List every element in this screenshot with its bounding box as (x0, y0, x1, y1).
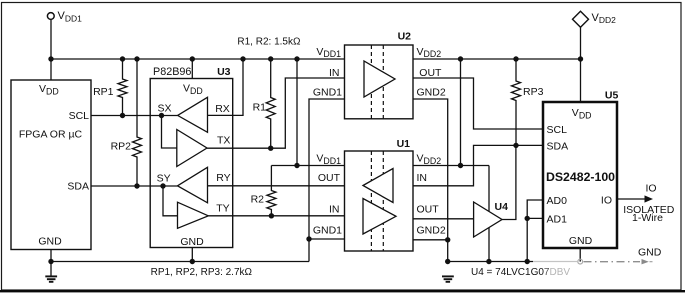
svg-text:P82B96: P82B96 (153, 66, 191, 78)
node AD1 junction (525, 216, 530, 221)
resistor RP2 (111, 59, 142, 186)
svg-text:IO: IO (601, 194, 612, 206)
wire U1 VDD2 to supply rail (413, 59, 489, 166)
wire VDD2 bus (right supply rail) (413, 58, 581, 60)
node VDD1/R2 tee junction (294, 163, 299, 168)
node left ground bus junctions (48, 259, 195, 264)
wire U4 output to isolated SDA (502, 145, 516, 219)
op-amp buffer U3 TY (points right) (178, 202, 209, 228)
svg-text:U5: U5 (605, 90, 619, 102)
svg-text:GND2: GND2 (417, 87, 446, 99)
svg-text:GND: GND (569, 235, 593, 247)
wire U1 OUT to U4 input (413, 218, 474, 220)
node R2 bottom junction on IN line (269, 213, 274, 218)
wire U3 VDD feed (191, 59, 193, 79)
svg-text:R1, R2: 1.5kΩ: R1, R2: 1.5kΩ (237, 36, 301, 47)
wire U4 supply/ground drop (488, 166, 490, 262)
isolation barrier dashes U1 (371, 151, 383, 251)
svg-text:RP3: RP3 (523, 86, 544, 98)
svg-text:RP2: RP2 (111, 140, 132, 152)
svg-text:U1: U1 (397, 138, 411, 150)
wire U2 OUT to U5 SCL (413, 78, 543, 129)
svg-text:TX: TX (217, 135, 230, 147)
svg-text:GND: GND (38, 235, 62, 247)
wire VDD1 to U1 (riser and feed) (271, 59, 344, 166)
wire isolated GND dash-dot arrow (584, 259, 653, 264)
svg-text:IN: IN (329, 67, 340, 79)
resistor R2 (251, 166, 276, 216)
op-amp buffer inside U1 top (points left) (363, 169, 393, 203)
wire U2 GND2 to isolated ground (413, 99, 448, 262)
svg-text:R2: R2 (251, 193, 265, 205)
node U5 GND junction (faded) (578, 259, 583, 264)
wire RX pull-up to VDD1 (208, 59, 244, 115)
svg-text:OUT: OUT (417, 204, 440, 216)
component U1 isolator box (345, 138, 414, 251)
wire U2 GND1 / U1 GND1 riser to ground bus (309, 99, 345, 262)
resistor RP3 (512, 59, 544, 145)
svg-text:RP1, RP2, RP3: 2.7kΩ: RP1, RP2, RP3: 2.7kΩ (151, 267, 253, 278)
node TX/R1 junction (268, 146, 273, 151)
svg-text:AD1: AD1 (547, 213, 568, 225)
wire TX to U2 IN (207, 78, 345, 148)
node U1 GND2 junction (445, 237, 450, 242)
svg-text:SCL: SCL (547, 124, 568, 136)
isolation barrier dashes U2 (371, 45, 383, 119)
node SDA junctions (134, 183, 165, 188)
node U1 VDD2 junction (458, 163, 463, 168)
wire U5 GND to ground bus (579, 248, 581, 262)
wire left ground bus (51, 261, 309, 263)
wire SX to TX buffer input (162, 116, 177, 149)
svg-text:TY: TY (216, 203, 229, 215)
svg-text:GND2: GND2 (417, 224, 446, 236)
svg-text:SY: SY (157, 172, 171, 184)
node U1 GND1 junction (306, 236, 311, 241)
wire RY to U1 OUT (208, 185, 345, 187)
node SCL junctions (120, 113, 164, 118)
svg-text:R1: R1 (253, 102, 267, 114)
FPGA or microcontroller box (11, 80, 91, 250)
op-amp buffer U3 RX (points left) (178, 97, 208, 132)
component U3 P82B96 box (150, 66, 233, 248)
svg-text:FPGA OR µC: FPGA OR µC (19, 128, 83, 140)
op-amp buffer inside U1 bottom (points right) (363, 199, 396, 235)
wire right ground bus (448, 261, 577, 263)
component U2 isolator box (345, 30, 414, 118)
op-amp buffer U3 TX (points right) (177, 130, 207, 167)
power terminal VDD1 (47, 10, 82, 59)
svg-text:RY: RY (216, 172, 230, 184)
svg-text:SX: SX (158, 102, 172, 114)
wire FPGA VDD feed (50, 59, 52, 80)
svg-text:IN: IN (329, 204, 340, 216)
node right ground bus junctions (445, 259, 530, 264)
svg-text:SDA: SDA (67, 181, 89, 193)
wire IO output arrow (617, 195, 653, 202)
svg-text:SDA: SDA (547, 141, 569, 153)
node VDD2 bus junctions (458, 56, 583, 61)
svg-text:1-Wire: 1-Wire (632, 212, 663, 224)
component U5 DS2482-100 box (543, 90, 618, 248)
svg-text:RX: RX (215, 103, 230, 115)
wire TY to U1 IN (208, 215, 344, 217)
svg-text:RP1: RP1 (93, 86, 114, 98)
svg-text:SCL: SCL (69, 110, 90, 122)
svg-text:GND: GND (638, 247, 662, 259)
svg-text:U2: U2 (398, 30, 412, 42)
svg-text:U4: U4 (495, 201, 509, 213)
svg-text:OUT: OUT (419, 67, 442, 79)
svg-text:IO: IO (646, 182, 657, 194)
wire U1 GND2 (413, 239, 448, 241)
ground symbol (left) (45, 276, 57, 281)
wire U3 GND to ground bus (191, 248, 193, 262)
wire FPGA GND to ground bus (50, 250, 52, 277)
svg-text:U3: U3 (217, 66, 231, 78)
wire VDD1 bus (left supply rail) (51, 58, 345, 60)
wire AD0/AD1 to ground (527, 200, 543, 262)
svg-text:AD0: AD0 (547, 195, 568, 207)
ground symbol (right, isolated) (442, 276, 454, 281)
node VDD1 bus junctions (48, 56, 299, 61)
svg-text:U4 = 74LVC1G07DBV: U4 = 74LVC1G07DBV (471, 267, 570, 278)
U2 pin labels left (313, 46, 342, 99)
svg-text:OUT: OUT (318, 172, 341, 184)
resistor R1 (253, 59, 276, 148)
op-amp buffer U3 RY (points left) (178, 167, 208, 203)
resistor RP1 (93, 59, 127, 116)
wire SY to TY buffer input (163, 186, 178, 216)
label ISOLATED 1-Wire (623, 204, 675, 224)
buffer U4 74LVC1G07 (474, 201, 508, 237)
wire U1 GND1 (309, 238, 345, 240)
wire SDA (FPGA to U3 SY) (91, 185, 178, 187)
wire SCL (FPGA to U3 SX) (91, 115, 178, 117)
node isolated SDA junction (RP3/U4) (513, 143, 518, 148)
op-amp buffer inside U2 (points right) (364, 61, 395, 97)
U1 pin labels right (417, 152, 446, 236)
svg-text:GND1: GND1 (313, 224, 342, 236)
svg-text:IN: IN (417, 172, 428, 184)
svg-text:GND1: GND1 (313, 87, 342, 99)
svg-text:GND: GND (180, 236, 204, 248)
U2 pin labels right (417, 46, 446, 99)
U1 pin labels left (313, 152, 342, 236)
wire isolated SDA to U1 IN (413, 145, 543, 185)
svg-text:DS2482-100: DS2482-100 (546, 170, 615, 184)
power terminal VDD2 (573, 11, 617, 102)
